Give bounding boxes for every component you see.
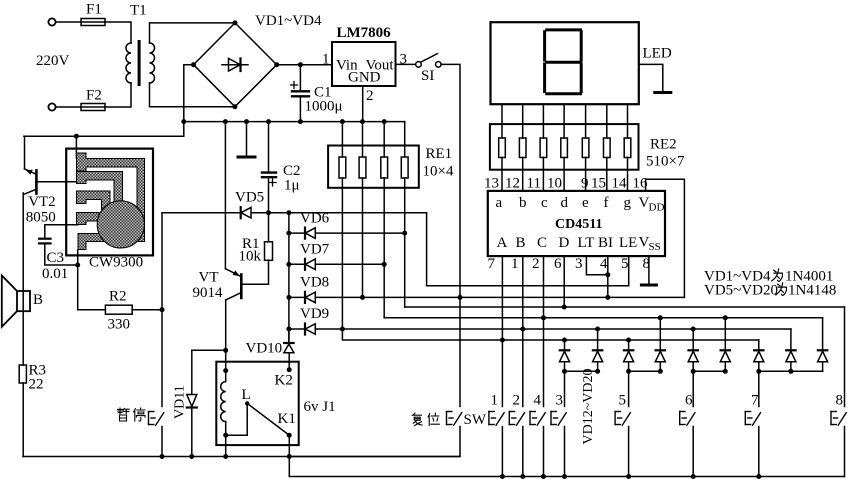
svg-text:VD5~VD20: VD5~VD20 xyxy=(704,283,778,299)
relay coil L xyxy=(221,350,226,456)
node key5 tie b xyxy=(658,369,663,374)
wire SI to +6V column xyxy=(441,64,460,406)
svg-text:d: d xyxy=(561,195,569,211)
node coil bottom xyxy=(223,433,228,438)
svg-text:RE2: RE2 xyxy=(650,137,677,153)
svg-text:1N4148: 1N4148 xyxy=(788,283,836,299)
switch SI xyxy=(416,54,441,68)
node key3 tie b xyxy=(595,369,600,374)
node VD5-diode rail xyxy=(286,210,291,215)
wire key3 diode tie xyxy=(565,370,598,372)
node rail-RE1a xyxy=(340,119,345,124)
svg-text:R2: R2 xyxy=(109,289,127,305)
node LT-BI xyxy=(605,272,610,277)
ground symbol VSS xyxy=(641,284,656,287)
capacitor C3 xyxy=(39,225,78,265)
svg-text:F2: F2 xyxy=(86,88,102,104)
wires key switch bottoms to common rail xyxy=(502,427,844,477)
svg-text:6v J1: 6v J1 xyxy=(304,399,336,415)
LED display box xyxy=(491,22,639,104)
transistor VT2 8050 xyxy=(24,136,36,194)
terminal 220V line bottom xyxy=(48,103,55,110)
node key5 tie a xyxy=(626,369,631,374)
svg-text:12: 12 xyxy=(505,176,520,192)
svg-text:B: B xyxy=(33,292,43,308)
svg-text:K1: K1 xyxy=(278,411,296,427)
note glyph 为 2 xyxy=(776,283,787,295)
node rail-key4 xyxy=(541,474,546,479)
wire Vout to switch xyxy=(396,63,416,65)
RE2 resistor top stubs inside box xyxy=(502,124,628,138)
wire VDD pin16 riser xyxy=(646,179,685,297)
svg-text:6: 6 xyxy=(685,393,693,409)
svg-text:VT2: VT2 xyxy=(28,194,56,210)
svg-text:1000μ: 1000μ xyxy=(305,99,343,115)
node VD5-C2R1 xyxy=(266,210,271,215)
diode VD20 (key7 C) xyxy=(818,318,828,372)
RE1 resistor 4 xyxy=(401,122,408,307)
node C3-R2 xyxy=(75,263,80,268)
svg-text:g: g xyxy=(624,195,632,211)
pin letters a b c d e f g VDD xyxy=(496,195,665,214)
wire bridge left to negative rail xyxy=(184,65,194,122)
node Cbus-d4 xyxy=(658,315,663,320)
RE1 resistor 3 xyxy=(381,122,388,318)
node rail-key5 xyxy=(626,474,631,479)
pin letters A B C D LT BI LE VSS xyxy=(497,235,661,254)
diode VD14 (key5 A) xyxy=(624,340,634,407)
svg-text:8050: 8050 xyxy=(26,210,56,226)
svg-text:A: A xyxy=(497,235,508,251)
node rail-VD8 xyxy=(286,295,291,300)
svg-text:9: 9 xyxy=(581,176,589,192)
diode VD9 row and B bus xyxy=(289,324,791,335)
diode VD5 row xyxy=(162,207,427,218)
key common rail xyxy=(289,435,844,476)
svg-text:F1: F1 xyxy=(86,2,102,18)
node rail-CW9300 top xyxy=(74,134,79,139)
node Bbus-pin1 xyxy=(520,327,525,332)
wire pin1 B column xyxy=(522,256,524,406)
node bridge top xyxy=(233,20,238,25)
wire coil bottom to armature pivot xyxy=(226,403,248,435)
resistor network RE1 box xyxy=(328,146,419,188)
pin number labels 13 12 11 10 9 15 14 16 xyxy=(484,176,648,192)
svg-text:3: 3 xyxy=(575,256,583,272)
diode VD19 (key7 B) xyxy=(786,329,796,371)
wire key8 column from D bus xyxy=(844,307,846,407)
svg-text:VD6: VD6 xyxy=(300,211,330,227)
wire key5 diode tie xyxy=(629,370,661,372)
svg-text:8: 8 xyxy=(836,393,844,409)
ground symbol LED xyxy=(655,91,671,94)
svg-text:VD1~VD4: VD1~VD4 xyxy=(255,13,322,29)
svg-text:15: 15 xyxy=(591,176,606,192)
svg-text:6: 6 xyxy=(554,256,562,272)
node key7 tie b xyxy=(788,369,793,374)
wire secondary bottom to bridge xyxy=(150,83,235,107)
diode VD18 (key7 A) xyxy=(754,340,764,407)
bridge rectifier VD1~VD4 diamond xyxy=(194,23,277,107)
negative rail xyxy=(184,121,405,123)
diode VD12 (key3 A) xyxy=(560,340,570,407)
wire LE row to VD5 row xyxy=(427,213,629,286)
label 暂停 (pause) xyxy=(118,408,146,421)
svg-text:7: 7 xyxy=(488,256,496,272)
speaker B xyxy=(2,276,30,327)
wire D bus xyxy=(405,306,845,308)
ground symbol near C2 xyxy=(238,122,255,157)
svg-text:9014: 9014 xyxy=(193,285,224,301)
svg-text:13: 13 xyxy=(484,176,499,192)
svg-text:2: 2 xyxy=(532,256,540,272)
svg-text:1μ: 1μ xyxy=(284,178,300,194)
node VDD-plus6V xyxy=(458,295,463,300)
resistor R2 xyxy=(78,265,162,314)
node collector-VD11 xyxy=(223,348,228,353)
wire A bus xyxy=(342,329,758,340)
node rail-pause xyxy=(160,454,165,459)
node K1-left rail xyxy=(287,454,292,459)
svg-text:2: 2 xyxy=(513,393,521,409)
wire key6 diode tie xyxy=(693,370,725,372)
diode VD8 row and VDD line xyxy=(289,292,685,303)
node rail-C1 xyxy=(298,119,303,124)
switch key8 xyxy=(831,412,846,426)
wires display to RE2 (7) xyxy=(502,104,628,124)
contact K2 stub xyxy=(288,353,290,370)
svg-text:1: 1 xyxy=(511,256,519,272)
svg-text:a: a xyxy=(496,195,503,211)
svg-text:10k: 10k xyxy=(239,249,262,265)
node key6 tie b xyxy=(723,369,728,374)
resistor R3 xyxy=(19,365,26,457)
wire pin7 A column xyxy=(501,256,503,406)
wire F2 to T1 xyxy=(105,83,131,107)
svg-text:SW: SW xyxy=(464,412,487,428)
switch 复位 reset xyxy=(447,412,462,426)
CW9300 COB pattern xyxy=(77,153,145,250)
node rail-C2 xyxy=(266,119,271,124)
wire pin2 C column xyxy=(543,256,545,406)
svg-text:0.01: 0.01 xyxy=(42,266,68,282)
svg-text:14: 14 xyxy=(612,176,628,192)
svg-text:RE1: RE1 xyxy=(426,146,453,162)
fuse F2 xyxy=(81,104,105,111)
svg-text:K2: K2 xyxy=(275,373,293,389)
wire diode cathode rail xyxy=(288,213,290,343)
node Bbus-d2 xyxy=(595,327,600,332)
svg-text:2: 2 xyxy=(366,88,374,104)
svg-text:LT: LT xyxy=(578,235,595,251)
module CW9300 box xyxy=(66,149,153,256)
svg-text:T1: T1 xyxy=(130,3,147,19)
svg-text:f: f xyxy=(604,195,609,211)
wire speaker to R3 xyxy=(22,193,24,365)
node rail-VD9 xyxy=(286,327,291,332)
node contact K2 xyxy=(287,367,292,372)
node rail-key2 xyxy=(520,474,525,479)
wire 7806 GND to rail xyxy=(362,86,364,122)
node bridge bottom xyxy=(232,104,237,109)
RE2 resistors (7) xyxy=(499,138,631,158)
svg-text:510×7: 510×7 xyxy=(646,154,685,170)
switch key7 xyxy=(745,412,760,426)
left common rail xyxy=(23,456,460,458)
node rail-coil xyxy=(223,454,228,459)
diode VD13 (key3 B) xyxy=(593,329,603,371)
wire rail drop to CW9300 rail xyxy=(24,122,184,137)
svg-text:b: b xyxy=(519,195,527,211)
svg-text:e: e xyxy=(582,195,589,211)
svg-text:LE: LE xyxy=(619,235,637,251)
node contact K1 xyxy=(287,433,292,438)
diode VD15 (key5 C) xyxy=(655,318,665,372)
node bridge left xyxy=(191,62,196,67)
svg-text:VT: VT xyxy=(199,270,219,286)
RE1 resistor 1 xyxy=(339,122,346,329)
terminal 220V line top xyxy=(48,18,55,25)
transformer T1 core xyxy=(138,40,141,86)
node key7 tie a xyxy=(756,369,761,374)
switch key2 xyxy=(509,412,524,426)
svg-text:4: 4 xyxy=(534,393,542,409)
svg-text:SS: SS xyxy=(649,241,661,253)
node rail-ground stub xyxy=(244,119,249,124)
svg-text:C: C xyxy=(537,235,547,251)
node VD7-colC xyxy=(382,262,387,267)
label 复位 (reset) xyxy=(412,413,439,426)
svg-text:3: 3 xyxy=(556,393,564,409)
svg-text:L: L xyxy=(242,387,251,403)
node coil top xyxy=(223,368,228,373)
bridge inner diode symbol xyxy=(222,58,248,71)
RE1 resistor 2 xyxy=(359,122,366,298)
wire C bus xyxy=(384,317,822,319)
diode VD6 xyxy=(289,228,405,239)
node bridge right xyxy=(274,62,279,67)
switch key4 xyxy=(530,412,545,426)
svg-text:CW9300: CW9300 xyxy=(89,255,143,271)
svg-text:4: 4 xyxy=(600,256,608,272)
relay J1 box xyxy=(216,362,298,445)
svg-text:1: 1 xyxy=(322,52,330,68)
svg-text:330: 330 xyxy=(108,317,131,333)
node rail-key1 xyxy=(500,474,505,479)
note glyph 为 1 xyxy=(772,269,783,281)
wire VT collector to relay and VD11 xyxy=(192,349,226,351)
svg-text:22: 22 xyxy=(29,377,44,393)
svg-text:10: 10 xyxy=(547,176,562,192)
node rail-VT emitter xyxy=(223,119,228,124)
node key6 tie a xyxy=(691,369,696,374)
svg-text:C3: C3 xyxy=(47,250,65,266)
diode VD10 xyxy=(284,329,294,353)
resistor R1 xyxy=(241,213,272,285)
switch key3 xyxy=(551,412,566,426)
node key3 tie a xyxy=(562,369,567,374)
svg-text:LED: LED xyxy=(643,46,672,62)
capacitor C1 xyxy=(291,65,310,122)
svg-text:7: 7 xyxy=(751,393,759,409)
svg-text:1: 1 xyxy=(491,393,499,409)
switch key6 xyxy=(680,412,695,426)
node Cbus-d6 xyxy=(723,315,728,320)
wire xyxy=(56,21,81,23)
svg-text:5: 5 xyxy=(621,256,629,272)
IC CD4511 box xyxy=(488,191,665,256)
node rail-bridge xyxy=(181,119,186,124)
node rail-VD6 xyxy=(286,231,291,236)
wire key7 diode tie xyxy=(759,370,823,372)
svg-text:GND: GND xyxy=(348,70,381,86)
diode VD7 xyxy=(289,259,384,270)
wire bridge right to 7806 Vin xyxy=(277,64,332,66)
svg-text:VD8: VD8 xyxy=(300,275,329,291)
wire pin4 BI column xyxy=(607,256,609,297)
node rail-key3 xyxy=(562,474,567,479)
node armature pivot xyxy=(245,401,249,405)
wire CW9300 top pin xyxy=(75,136,77,158)
svg-text:DD: DD xyxy=(649,202,665,214)
switch key5 xyxy=(615,412,630,426)
svg-text:VD12~VD20: VD12~VD20 xyxy=(581,368,596,444)
node Abus-pin7 xyxy=(500,338,505,343)
node C1 top xyxy=(298,62,303,67)
transformer T1 secondary winding xyxy=(150,43,155,83)
svg-text:5: 5 xyxy=(619,393,627,409)
svg-text:VD7: VD7 xyxy=(300,242,330,258)
svg-text:220V: 220V xyxy=(36,53,70,69)
node Bbus-colA xyxy=(340,327,345,332)
node rail-key7 xyxy=(756,474,761,479)
node Abus-d1 xyxy=(562,338,567,343)
switch 暂停 pause xyxy=(149,213,164,457)
wire VSS pin8 to ground xyxy=(648,256,650,283)
resistor network RE2 box xyxy=(490,124,639,170)
wire reset bottom link to K1 rail xyxy=(289,427,460,457)
svg-text:CD4511: CD4511 xyxy=(555,217,602,232)
node VD6-colD xyxy=(402,231,407,236)
node VDD-LTBI xyxy=(605,295,610,300)
svg-text:VD5: VD5 xyxy=(235,190,264,206)
wire LED common to ground xyxy=(639,64,663,91)
diode VD16 (key6 B) xyxy=(688,329,698,407)
capacitor C2 xyxy=(262,122,276,213)
wire VT2 base to CW9300 xyxy=(36,181,78,183)
pin number labels 7 1 2 6 3 4 5 8 xyxy=(488,256,651,272)
svg-text:VD10: VD10 xyxy=(246,341,283,357)
svg-text:VD9: VD9 xyxy=(300,306,329,322)
fuse F1 xyxy=(81,19,105,26)
svg-text:BI: BI xyxy=(598,235,613,251)
node rail-RE1c xyxy=(382,119,387,124)
wire CW9300 bottom pin xyxy=(77,250,79,265)
transformer T1 primary winding xyxy=(126,43,131,83)
diode VD11 xyxy=(187,350,197,456)
node Dbus-pin6 xyxy=(562,305,567,310)
node R2-pause column xyxy=(160,307,165,312)
svg-text:10×4: 10×4 xyxy=(423,164,454,180)
wire pin6 D column xyxy=(563,256,565,307)
node rail-key6 xyxy=(691,474,696,479)
wire F1 to T1 xyxy=(105,22,131,43)
svg-text:SI: SI xyxy=(421,68,434,84)
svg-text:B: B xyxy=(516,235,526,251)
svg-text:LM7806: LM7806 xyxy=(337,25,392,41)
node VD8-colB xyxy=(360,295,365,300)
node Bbus-d5 xyxy=(691,327,696,332)
wires RE2 to CD4511 (7) xyxy=(502,158,628,191)
diode VD17 (key6 C) xyxy=(720,318,730,372)
node rail-RE1b xyxy=(360,119,365,124)
wire secondary top to bridge xyxy=(150,23,236,43)
svg-text:c: c xyxy=(541,195,548,211)
node Abus-d3 xyxy=(626,338,631,343)
svg-text:VD11: VD11 xyxy=(173,385,188,419)
wire xyxy=(56,106,81,108)
relay armature blade xyxy=(247,403,289,435)
svg-text:11: 11 xyxy=(527,176,541,192)
regulator LM7806 box xyxy=(332,42,396,86)
seven segment digit 8 xyxy=(545,30,582,94)
wire pin5 LE down xyxy=(628,256,630,286)
transistor VT 9014 xyxy=(225,122,241,351)
node rail-VD7 xyxy=(286,262,291,267)
svg-text:D: D xyxy=(559,235,570,251)
node rail-VD11 xyxy=(189,454,194,459)
wire pin3 LT jog to pin4 xyxy=(586,256,607,275)
switch SW/key1 xyxy=(489,412,504,426)
node Cbus-pin2 xyxy=(541,315,546,320)
